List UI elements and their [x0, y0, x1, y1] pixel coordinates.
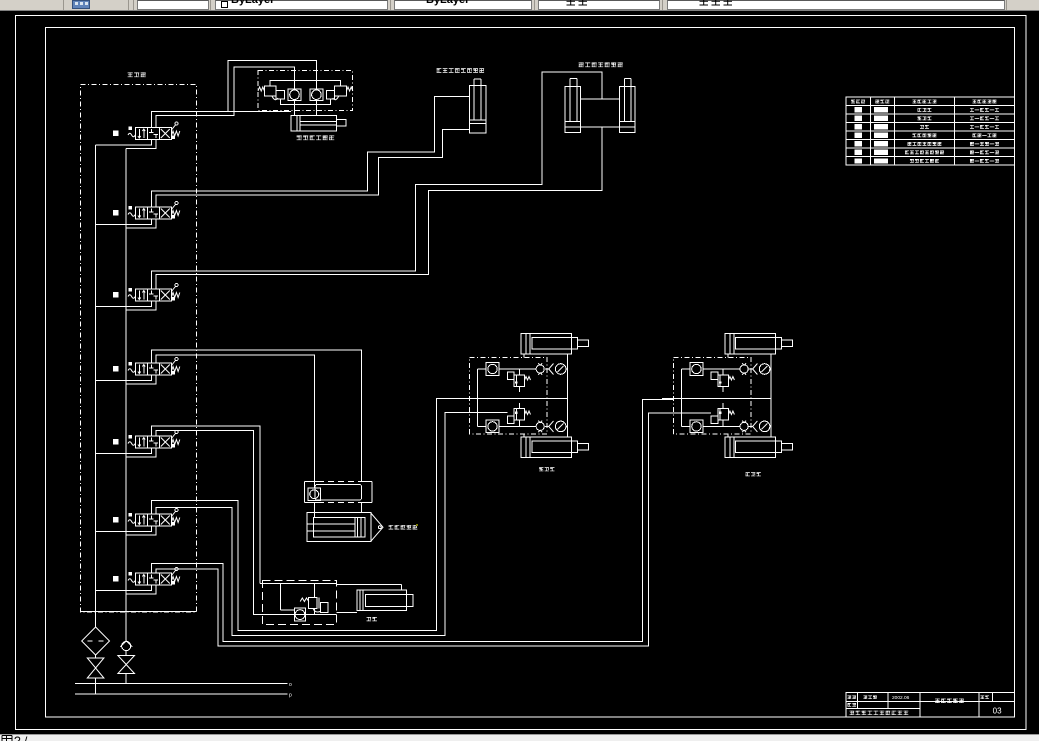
lower block check valve: [294, 608, 305, 621]
return rail to port P: [96, 693, 288, 695]
wire DV5 to tank rail: [96, 448, 152, 454]
check valve CV-B: [310, 89, 323, 101]
shuttle cylinder with cone head: [307, 513, 383, 542]
front leg pilot check lower: [740, 421, 748, 433]
wire DV1 to pressure rail: [126, 140, 156, 149]
wire DV6 port B to rear leg cluster: [156, 412, 470, 635]
svg-text:? /: ? /: [14, 735, 28, 741]
title block texts: [847, 695, 989, 715]
front leg relief valve lower: [711, 403, 734, 426]
wire DV2 port B to clamp cylinder piston side: [156, 130, 470, 207]
table row 4 contact mark: [855, 133, 863, 138]
4/3 directional solenoid valve DV3: [113, 283, 180, 301]
table row 5 action: [970, 142, 999, 146]
label rear leg: [539, 467, 554, 471]
table row 5 cylinder name: [907, 142, 941, 146]
label short prop cylinder: [367, 617, 377, 621]
rear leg dashed valve block: [470, 357, 547, 433]
wire DV3 to tank rail: [96, 301, 152, 307]
front leg pressure gauge upper: [753, 364, 770, 375]
wire DV3 port A to twin cylinders top: [151, 72, 602, 289]
table row 7 cylinder name: [910, 159, 939, 163]
canopy side-guard twin cylinder left: [565, 78, 580, 132]
4/3 directional solenoid valve DV7: [113, 567, 180, 585]
wire DV5 port B to lower valve block: [156, 431, 337, 615]
shutoff valve under pump: [118, 651, 135, 684]
4/3 directional solenoid valve DV2: [113, 201, 180, 219]
suction rail to port O: [126, 683, 288, 685]
front leg check valve lower: [690, 420, 703, 433]
twin cylinder connecting manifold: [580, 99, 619, 127]
4/3 directional solenoid valve DV6: [113, 508, 180, 526]
pressure manifold rail P: [125, 148, 127, 611]
wire DV3 port B to twin cylinders bottom: [156, 127, 602, 289]
table row 2 action: [970, 116, 999, 120]
rear leg bottom cylinder: [521, 437, 589, 458]
wire DV4 to pressure rail: [126, 375, 156, 384]
canopy side-guard twin cylinder right: [620, 78, 636, 132]
table header row: [851, 100, 996, 104]
table row 2 contact mark: [855, 116, 863, 121]
wire DV4 to tank rail: [96, 375, 152, 381]
front leg check valve upper: [690, 363, 703, 376]
short prop cylinder: [357, 590, 413, 610]
rear leg internal piping: [458, 354, 567, 438]
label grab-jaw cylinder: [297, 135, 335, 140]
table row 6 action: [970, 150, 999, 154]
front leg block B-port internal pipe: [649, 412, 712, 414]
table row 6 valve mark: [874, 150, 888, 155]
rear leg relief valve upper: [507, 369, 530, 392]
rear leg pressure gauge upper: [549, 364, 566, 375]
wire DV3 to pressure rail: [126, 301, 156, 310]
lower relief-check valve block: [260, 581, 337, 625]
cylinder schedule table: [846, 97, 1015, 165]
rear leg check valve upper: [486, 363, 499, 376]
front leg pilot check upper: [740, 363, 748, 375]
return filter: [82, 612, 110, 656]
4/3 directional solenoid valve DV5: [113, 430, 180, 448]
pipes drive block to shuttle cylinder: [314, 503, 361, 518]
label side-guard clamp cylinder: [437, 68, 485, 72]
rear leg block B-port internal pipe: [445, 411, 507, 413]
wire DV1 port A to pilot-valve block: [151, 61, 316, 128]
selection grip dot: [416, 524, 418, 526]
table row 3 action: [970, 125, 999, 129]
table row 5 contact mark: [855, 141, 863, 146]
relief valve left RV-L: [258, 86, 284, 100]
table row 7 valve mark: [874, 158, 888, 163]
front leg dashed valve block: [674, 357, 751, 433]
wire DV2 to tank rail: [96, 219, 152, 225]
front leg relief valve upper: [711, 369, 734, 392]
wire DV6 to pressure rail: [126, 526, 156, 535]
pilot operated valve block dashed enclosure: [258, 71, 353, 111]
label canopy side-guard cylinder: [579, 62, 623, 67]
label front leg: [746, 472, 761, 476]
table row 1 action: [970, 108, 999, 112]
wire DV5 port A to lower valve block: [151, 426, 260, 584]
wire DV1 to tank rail: [96, 140, 152, 146]
shutoff valve under filter: [87, 655, 104, 694]
rear leg check valve lower: [486, 420, 499, 433]
rear leg pressure gauge lower: [549, 421, 566, 432]
wire DV2 port A to clamp cylinder rod side: [151, 97, 469, 208]
front leg pressure gauge lower: [753, 421, 770, 432]
svg-text:p: p: [289, 693, 292, 699]
table row 1 cylinder name: [917, 108, 931, 112]
wire DV7 to tank rail: [96, 585, 152, 591]
wire DV1 port B to pilot-valve block: [156, 67, 295, 128]
rear leg top cylinder: [521, 333, 589, 354]
table row 5 valve mark: [874, 141, 888, 146]
lower block relief valve: [300, 598, 328, 613]
hydraulic pump: [120, 612, 132, 651]
front leg bottom cylinder: [725, 437, 793, 458]
wire DV6 to tank rail: [96, 526, 152, 532]
wire DV1 branch to grab-jaw cylinder: [228, 110, 291, 112]
wire DV7 port B to front leg cluster: [156, 413, 674, 646]
table row 7 contact mark: [855, 158, 863, 163]
wire DV7 port A to front leg cluster: [151, 399, 673, 641]
table row 1 valve mark: [874, 107, 888, 112]
wire DV5 to pressure rail: [126, 448, 156, 457]
pilot block internal wires: [270, 81, 340, 116]
wire DV6 port A to rear leg cluster: [151, 398, 469, 630]
table row 1 contact mark: [855, 107, 863, 112]
svg-text:2002.06: 2002.06: [892, 695, 910, 701]
wire DV2 to pressure rail: [126, 219, 156, 228]
table row 4 action: [972, 133, 996, 137]
wire DV4 port B to shuttle drive block: [156, 355, 314, 488]
label shuttle cylinder: [389, 525, 418, 529]
front leg internal piping: [662, 354, 771, 438]
grab-jaw cylinder: [291, 115, 346, 131]
wire DV4 port A to shuttle drive block: [151, 350, 361, 482]
tank manifold rail T: [95, 145, 97, 611]
svg-text:o: o: [289, 682, 292, 688]
table row 6 contact mark: [855, 150, 863, 155]
front leg top cylinder: [725, 333, 793, 354]
table row 3 cylinder name: [920, 125, 929, 129]
rear leg pilot check lower: [536, 421, 544, 433]
table row 2 valve mark: [874, 116, 888, 121]
4/3 directional solenoid valve DV4: [113, 357, 180, 375]
relief valve right RV-R: [326, 86, 353, 100]
table row 7 action: [970, 159, 999, 163]
title block grid: [846, 693, 1015, 717]
short prop cylinder envelope pipes: [336, 585, 401, 613]
rear leg pilot check upper: [536, 363, 544, 375]
side-guard clamp cylinder: [470, 79, 487, 133]
table row 2 cylinder name: [917, 116, 931, 120]
table row 3 contact mark: [855, 124, 863, 129]
label huanxiangfa valve-bank: [128, 72, 146, 77]
table row 3 valve mark: [874, 124, 888, 129]
shuttle drive valve block: [305, 482, 373, 503]
table row 4 valve mark: [874, 133, 888, 138]
rear leg relief valve lower: [507, 403, 530, 426]
table row 4 cylinder name: [912, 133, 936, 137]
4/3 directional solenoid valve DV1: [113, 122, 180, 140]
table row 6 cylinder name: [905, 150, 944, 154]
dashed enclosure box for directional valve bank: [81, 85, 197, 613]
wire DV7 to pressure rail: [126, 585, 156, 594]
check valve CV-A: [288, 89, 301, 101]
svg-text:03: 03: [993, 707, 1002, 716]
